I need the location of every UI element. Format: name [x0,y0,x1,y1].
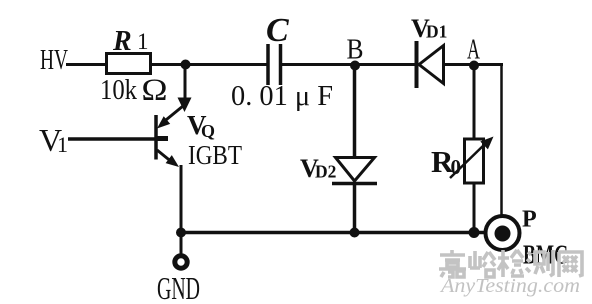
svg-text:C: C [266,12,289,49]
value 10kΩ [100,72,168,107]
wire emitter down to bottom rail [180,165,183,233]
svg-text:D1: D1 [426,22,447,42]
bottom rail wire [181,231,487,235]
svg-text:GND: GND [157,270,200,304]
collector arrowhead down [178,98,192,113]
wire HV to R1 [66,63,107,66]
watermark char 嘉 [439,250,466,277]
svg-text:D2: D2 [315,162,336,182]
collector diagonal [161,106,183,124]
label VD2 [300,154,336,183]
emitter arrowhead [166,155,179,167]
diode VD1 triangle [419,46,444,84]
svg-text:0. 01 μ F: 0. 01 μ F [231,80,333,112]
wire A down to R0 [473,65,476,140]
svg-text:R: R [112,26,132,57]
junction R0/rail [469,227,480,238]
diode VD2 triangle [336,158,375,182]
label R1 [112,26,149,57]
GND terminal circle [175,256,187,268]
capacitor C plates [268,44,281,85]
svg-text:Q: Q [201,121,215,141]
node V1 label [39,122,68,158]
connector BMC center dot [495,226,511,242]
svg-text:IGBT: IGBT [188,140,242,170]
wire collector vertical [184,65,187,102]
watermark char 测 [526,250,553,276]
watermark char 峪 [470,251,495,277]
watermark char 网 [558,252,582,277]
diode VD1 cathode bar [415,41,419,88]
diode VD2 cathode bar [332,182,377,186]
resistor R1 [107,54,151,74]
junction emitter/rail [176,228,186,238]
transistor Q1 body bar [154,115,158,160]
transistor gate tick [157,136,168,141]
junction node A [469,61,479,71]
emitter diagonal [157,150,173,163]
junction dot at R1/collector node [181,60,191,70]
junction VD2/rail [350,228,360,238]
collector arrowhead at bar [157,116,170,128]
connector BMC outer circle [486,216,520,250]
watermark char 检 [498,250,524,277]
variable resistor R0 arrow [450,137,494,179]
wire B down to VD2 [353,65,357,158]
watermark chinese characters [439,250,582,277]
svg-text:Ω: Ω [141,72,168,107]
svg-text:1: 1 [57,132,68,157]
svg-text:AnyTesting.com: AnyTesting.com [439,275,580,297]
svg-text:1: 1 [137,29,149,54]
label R0 [431,144,461,179]
svg-text:0: 0 [451,155,462,179]
wire V1 to gate [68,137,155,141]
variable resistor R0 body [465,139,484,183]
junction node B [350,61,360,71]
wire R0 to bottom rail [473,183,476,233]
label VQ [187,110,215,141]
wire R1 to capacitor C [150,63,267,66]
svg-text:10k: 10k [100,74,137,106]
label VD1 [411,14,447,43]
svg-text:HV: HV [40,44,68,76]
GND stub wire [180,235,183,255]
wire VD2 to bottom rail [353,183,357,233]
wire right vertical down to BMC [500,63,503,216]
wire VD1 to corner [443,63,503,66]
wire C to VD1 [282,63,416,66]
svg-text:P: P [522,207,537,233]
